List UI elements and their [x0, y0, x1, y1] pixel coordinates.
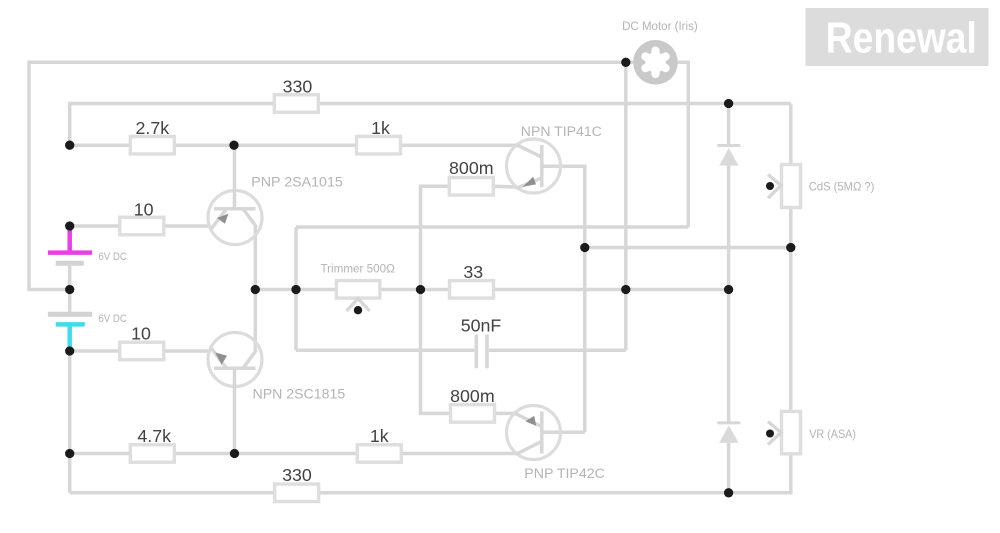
- svg-text:33: 33: [463, 262, 483, 282]
- junction dot battery1 top: [65, 221, 74, 230]
- wire bottom rail R9 right of 330: [319, 454, 791, 493]
- junction dot NPN base row: [230, 449, 239, 458]
- transistor Q4 PNP TIP42C: [507, 406, 561, 460]
- svg-text:800m: 800m: [449, 158, 493, 178]
- wire rail R2 mid segment: [174, 143, 356, 147]
- junction dot left rail row453: [65, 449, 74, 458]
- wire PNP collector down to bus: [254, 226, 258, 290]
- wire PNP emitter row y=226 right: [164, 224, 211, 228]
- junction dot battery2 bottom: [65, 346, 74, 355]
- junction dot bus diode column: [724, 285, 733, 294]
- wire outer top rail and left side: [29, 62, 633, 289]
- trimmer 500 ohm box: [336, 281, 380, 299]
- resistor 1k top: [357, 136, 401, 154]
- battery B2 6V DC (cyan): [48, 290, 92, 352]
- svg-text:NPN 2SC1815: NPN 2SC1815: [253, 387, 346, 403]
- wire PNP emitter row y=226 left: [70, 224, 121, 228]
- wire TIP41C collector to x=584.8 down: [543, 166, 585, 432]
- resistor 2.7k: [130, 136, 174, 154]
- svg-text:1k: 1k: [371, 118, 390, 138]
- resistor 10 bottom: [120, 342, 164, 360]
- title banner Renewal: [806, 8, 989, 66]
- svg-text:10: 10: [134, 199, 154, 219]
- wire rect top rail y=227: [296, 225, 688, 229]
- junction dot bus x420.5: [416, 285, 425, 294]
- motor M1 DC Motor: [633, 40, 678, 85]
- svg-text:2.7k: 2.7k: [135, 118, 169, 138]
- wire bus y=289.5 segment c: [494, 288, 729, 292]
- wire motor right lead down: [678, 62, 689, 227]
- svg-text:10: 10: [131, 323, 151, 343]
- svg-text:Trimmer 500Ω: Trimmer 500Ω: [321, 263, 396, 275]
- wire row R8 left: [70, 452, 131, 456]
- wire NPN collector up to bus: [254, 290, 258, 352]
- transistor Q3 NPN TIP41C: [507, 139, 561, 193]
- transistor Q2 NPN 2SC1815: [208, 333, 262, 454]
- junction dot bottom rail diode2: [724, 488, 733, 497]
- resistor 4.7k: [130, 445, 174, 463]
- svg-text:50nF: 50nF: [461, 316, 502, 336]
- resistor 800m top: [449, 178, 493, 196]
- resistor 800m bottom: [451, 405, 495, 423]
- resistor 1k bottom: [357, 445, 401, 463]
- junction dot top rail / motor: [621, 58, 630, 67]
- wire 800m top right lead: [493, 185, 516, 189]
- wire diode1 bottom lead: [727, 166, 731, 290]
- capacitor C1 50nF: [476, 335, 487, 369]
- wire row R8 to TIP42C base: [401, 452, 517, 456]
- wire bottom rail R9 left of 330: [70, 491, 275, 495]
- wire cap row R6 left: [296, 349, 474, 353]
- photoresistor CdS body: [782, 165, 801, 208]
- wire CdS top lead: [789, 104, 793, 165]
- wire x=584.8 to CdS wiper row y=247.5: [585, 246, 791, 250]
- junction dot left rail row145: [65, 141, 74, 150]
- wire NPN emitter row y=351 left: [70, 349, 121, 353]
- svg-text:330: 330: [282, 465, 312, 485]
- wire 800m bottom right lead: [495, 412, 516, 416]
- svg-text:VR (ASA): VR (ASA): [809, 427, 856, 441]
- junction dot bus PNP/NPN collectors: [251, 285, 260, 294]
- wire CdS bottom to VR top: [789, 208, 793, 412]
- svg-text:PNP 2SA1015: PNP 2SA1015: [251, 175, 343, 191]
- wire diode1 top lead: [727, 104, 731, 146]
- svg-text:1k: 1k: [370, 426, 389, 446]
- junction dot 2.7k-1k-base: [229, 141, 238, 150]
- svg-text:330: 330: [283, 76, 313, 96]
- wire rail R1 with corner down at x=69.7: [70, 104, 791, 146]
- svg-text:CdS (5MΩ ?): CdS (5MΩ ?): [809, 180, 875, 194]
- svg-text:6V DC: 6V DC: [98, 251, 127, 263]
- junction dot R1-diode1: [724, 99, 733, 108]
- svg-text:Renewal: Renewal: [826, 15, 977, 63]
- resistor 330 bottom: [275, 484, 319, 502]
- wire bus y=289.5 segment a: [255, 288, 336, 292]
- diode D1: [717, 146, 740, 166]
- resistor 10 top: [120, 217, 164, 235]
- svg-text:6V DC: 6V DC: [98, 313, 127, 325]
- potentiometer VR body: [782, 412, 801, 454]
- photoresistor CdS arrow and dot: [766, 175, 781, 199]
- potentiometer VR arrow and dot: [766, 422, 781, 445]
- junction dot collector row x584.8: [580, 243, 589, 252]
- junction dot CdS bottom: [786, 243, 795, 252]
- wire TIP42C collector: [543, 431, 585, 435]
- wire vertical x=420.5 between 800m resistors: [421, 186, 451, 413]
- wire vertical x=296 rect left: [294, 227, 298, 350]
- wire row R8 mid: [174, 452, 357, 456]
- wire diode2 top lead: [727, 290, 731, 423]
- transistor Q1 PNP 2SA1015: [208, 145, 262, 244]
- wire rail R2 left segment: [70, 143, 131, 147]
- resistor 33: [450, 281, 494, 299]
- trimmer 500 ohm wiper arrow: [347, 299, 370, 315]
- wire left rail battery to bottom corner: [68, 351, 72, 493]
- junction dot battery mid: [65, 285, 74, 294]
- wire diode2 bottom lead: [727, 443, 731, 493]
- svg-text:4.7k: 4.7k: [137, 426, 171, 446]
- wire cap row R6 right: [489, 349, 626, 353]
- wire rail R2 to TIP41C base: [401, 143, 518, 147]
- svg-text:DC Motor (Iris): DC Motor (Iris): [622, 19, 698, 33]
- svg-text:PNP TIP42C: PNP TIP42C: [524, 466, 605, 482]
- junction dot bus x296: [291, 285, 300, 294]
- wire bus y=289.5 segment b: [380, 288, 450, 292]
- svg-text:NPN TIP41C: NPN TIP41C: [521, 124, 602, 140]
- wire NPN emitter row y=351 right: [164, 349, 211, 353]
- diode D2: [717, 423, 740, 443]
- battery B1 6V DC (magenta): [48, 226, 92, 290]
- resistor 330 top: [274, 95, 318, 113]
- junction dot bus x625.8: [621, 285, 630, 294]
- svg-text:800m: 800m: [450, 386, 494, 406]
- wire vertical motor-left to bus to cap row: [624, 62, 628, 350]
